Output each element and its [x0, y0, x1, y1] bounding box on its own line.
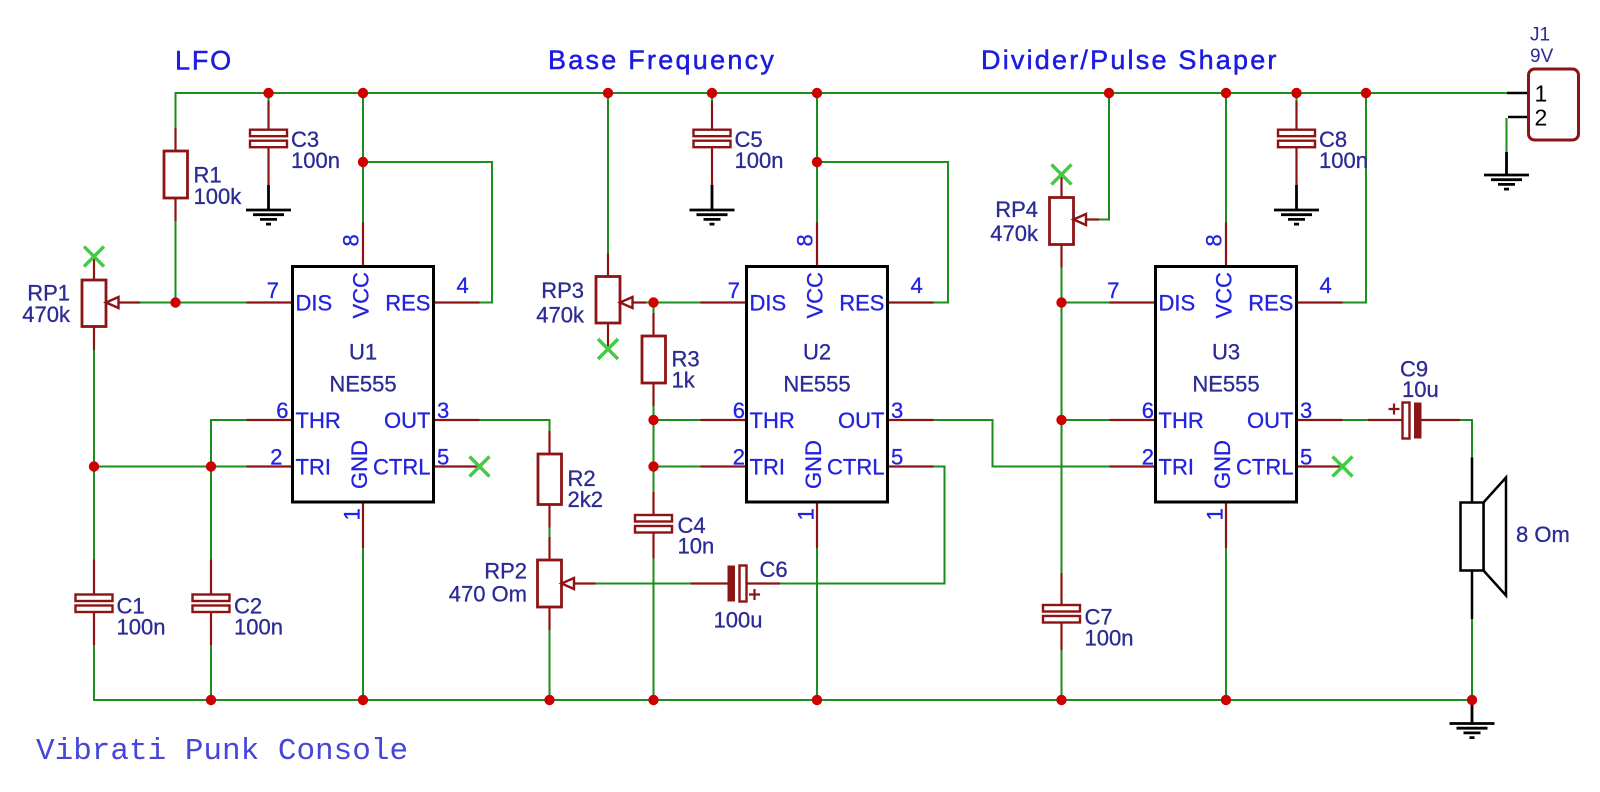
wire J1 pin2 to ground [1506, 118, 1508, 152]
svg-text:100n: 100n [234, 615, 283, 640]
svg-text:1k: 1k [672, 368, 696, 393]
wire C9 to speaker [1460, 420, 1472, 458]
svg-text:4: 4 [457, 273, 469, 298]
svg-text:2: 2 [733, 445, 745, 470]
resistor R2 [538, 431, 562, 528]
resistor R1 [164, 128, 188, 221]
svg-text:CTRL: CTRL [1236, 455, 1293, 480]
svg-text:OUT: OUT [1247, 408, 1293, 433]
svg-text:Vibrati Punk Console: Vibrati Punk Console [36, 734, 408, 769]
potentiometer RP3 [596, 254, 646, 347]
svg-text:1: 1 [1203, 508, 1228, 520]
wire U3 THR [1062, 419, 1110, 421]
U1 pin names [296, 272, 431, 489]
capacitor C9 polarized [1368, 403, 1460, 439]
svg-text:DIS: DIS [1159, 291, 1196, 316]
svg-text:RP2: RP2 [484, 559, 527, 584]
svg-text:470 Om: 470 Om [449, 582, 527, 607]
U3 pin 6 stub [1110, 419, 1156, 421]
no-connect X on RP1 top [84, 247, 104, 267]
ground below C8 [1274, 185, 1319, 224]
connector J1 [1507, 69, 1579, 140]
capacitor C1 [76, 560, 113, 646]
ground at bottom right [1450, 700, 1495, 738]
U1 pin 4 stub [434, 301, 480, 303]
svg-text:NE555: NE555 [1192, 372, 1259, 397]
svg-text:3: 3 [891, 398, 903, 423]
wire RP2 wiper to C6 [594, 583, 691, 585]
U3 pin 2 stub [1110, 465, 1156, 467]
svg-text:U2: U2 [803, 340, 831, 365]
svg-text:LFO: LFO [175, 46, 233, 76]
no-connect X on RP4 top [1052, 165, 1072, 185]
U2 pin 1 stub [816, 502, 818, 548]
svg-text:4: 4 [911, 273, 923, 298]
op-amp U3 body NE555 [1156, 267, 1297, 503]
wire C4 bottom to GND rail [653, 559, 655, 701]
wire U1 TRI [94, 467, 247, 560]
potentiometer RP2 [538, 537, 596, 630]
no-connect X on RP3 bottom [598, 339, 618, 359]
U2 pin numbers [728, 234, 923, 520]
U1 pin 6 stub [247, 419, 293, 421]
svg-text:5: 5 [891, 445, 903, 470]
svg-text:VCC: VCC [803, 272, 828, 319]
svg-text:RES: RES [839, 291, 884, 316]
potentiometer RP1 [82, 258, 140, 350]
wire U2 pin8 VCC drop [816, 93, 818, 223]
wire RP1 wiper to DIS node [138, 302, 176, 304]
junction dots VCC-RES branches [358, 157, 822, 167]
svg-text:THR: THR [296, 408, 341, 433]
svg-text:U3: U3 [1212, 340, 1240, 365]
wire C5 drop from rail [711, 93, 713, 101]
U3 pin 4 stub [1297, 301, 1343, 303]
svg-text:470k: 470k [22, 302, 71, 327]
svg-text:CTRL: CTRL [373, 455, 430, 480]
ground below J1 [1484, 152, 1529, 189]
svg-text:Base Frequency: Base Frequency [548, 45, 776, 75]
U3 pin numbers [1107, 234, 1332, 520]
svg-text:100n: 100n [1085, 626, 1134, 651]
svg-text:RES: RES [385, 291, 430, 316]
U3 pin 8 stub [1225, 223, 1227, 267]
svg-text:THR: THR [750, 408, 795, 433]
svg-text:THR: THR [1159, 408, 1204, 433]
svg-text:DIS: DIS [750, 291, 787, 316]
svg-text:8: 8 [793, 234, 818, 246]
U2 pin 2 stub [701, 465, 747, 467]
U2 pin 5 stub [888, 465, 934, 467]
svg-text:2: 2 [270, 445, 282, 470]
wire U3 pin8 VCC drop [1225, 93, 1227, 223]
capacitor C3 [250, 101, 287, 185]
svg-text:U1: U1 [349, 340, 377, 365]
svg-text:RP4: RP4 [995, 197, 1038, 222]
wire R1 bottom to DIS node [175, 221, 177, 303]
wire U1 DIS [176, 302, 247, 304]
svg-text:100n: 100n [291, 148, 340, 173]
svg-text:8: 8 [339, 234, 364, 246]
svg-text:8: 8 [1202, 234, 1227, 246]
svg-text:5: 5 [1300, 445, 1312, 470]
capacitor C7 [1043, 573, 1080, 650]
capacitor C8 [1278, 101, 1315, 185]
wire R3 top [653, 303, 655, 314]
svg-text:VCC: VCC [349, 272, 374, 319]
svg-text:OUT: OUT [838, 408, 884, 433]
capacitor C2 [193, 560, 230, 646]
svg-text:5: 5 [437, 445, 449, 470]
wire C2 bottom to GND rail [210, 645, 212, 700]
junction dots top rail [263, 88, 1371, 98]
resistor R3 [642, 313, 666, 406]
svg-text:2: 2 [1535, 105, 1548, 131]
svg-text:1: 1 [794, 508, 819, 520]
svg-text:DIS: DIS [296, 291, 333, 316]
wire U2 TRI [654, 466, 701, 468]
U2 pin names [750, 272, 885, 489]
wire C3 drop from rail [268, 93, 270, 101]
wire U3 RES riser from rail [1343, 93, 1367, 303]
wire R2 to RP2 [549, 528, 551, 538]
svg-text:CTRL: CTRL [827, 455, 884, 480]
svg-text:RES: RES [1248, 291, 1293, 316]
op-amp U1 body NE555 [293, 267, 434, 503]
wire C1 top [93, 467, 95, 560]
wire U1 pin1 GND drop [362, 548, 364, 700]
junction dots DIS rows [170, 297, 1066, 307]
wire U1 RES to VCC branch [363, 162, 492, 303]
wire GND bottom rail [94, 645, 1472, 700]
wire U1 OUT to R2 [480, 420, 550, 431]
no-connect X on U3 CTRL [1333, 457, 1353, 477]
svg-text:1: 1 [340, 508, 365, 520]
svg-text:470k: 470k [536, 303, 585, 328]
svg-text:TRI: TRI [750, 455, 785, 480]
wire C6 to U2 CTRL [775, 467, 945, 584]
svg-text:TRI: TRI [1159, 455, 1194, 480]
svg-text:100n: 100n [117, 615, 166, 640]
wire U3 DIS [1062, 302, 1110, 304]
svg-text:6: 6 [733, 398, 745, 423]
svg-text:TRI: TRI [296, 455, 331, 480]
wire RP3 top drop from rail [607, 93, 609, 254]
U1 pin 1 stub [362, 502, 364, 548]
svg-text:100n: 100n [735, 148, 784, 173]
capacitor C4 [635, 492, 672, 559]
ground below C5 [690, 185, 735, 224]
svg-text:NE555: NE555 [329, 372, 396, 397]
svg-text:RP3: RP3 [541, 278, 584, 303]
svg-text:10u: 10u [1402, 377, 1439, 402]
U1 pin 7 stub [247, 301, 293, 303]
wire VCC top rail [176, 93, 1508, 128]
capacitor C6 polarized [691, 566, 781, 602]
U2 pin 6 stub [701, 419, 747, 421]
potentiometer RP4 [1050, 175, 1100, 268]
wire U1 THR [211, 420, 247, 572]
svg-text:9V: 9V [1530, 46, 1554, 67]
wire RP4 bottom to U3 DIS node [1061, 268, 1063, 303]
junction dots THR rows [648, 415, 1066, 425]
speaker LS1 [1461, 458, 1507, 620]
junction dots bottom rail [206, 695, 1477, 705]
U1 pin 5 stub [434, 465, 480, 467]
svg-text:3: 3 [1300, 398, 1312, 423]
U2 pin 3 stub [888, 419, 934, 421]
svg-text:C6: C6 [760, 557, 788, 582]
op-amp U2 body NE555 [747, 267, 888, 503]
U3 pin 3 stub [1297, 419, 1343, 421]
svg-text:100n: 100n [1319, 148, 1368, 173]
wire RP2 bottom to GND rail [549, 630, 551, 700]
svg-text:100u: 100u [714, 608, 763, 633]
wire RP4 wiper riser from rail [1098, 93, 1109, 220]
svg-text:100k: 100k [194, 184, 243, 209]
U3 pin names [1159, 272, 1294, 489]
svg-text:7: 7 [267, 278, 279, 303]
wire U2 RES to VCC branch [817, 162, 948, 303]
svg-text:10n: 10n [678, 534, 715, 559]
wire RP1 bottom to TRI node [93, 350, 95, 467]
svg-text:VCC: VCC [1212, 272, 1237, 319]
svg-text:6: 6 [1142, 398, 1154, 423]
U1 pin 2 stub [247, 465, 293, 467]
capacitor C5 [694, 101, 731, 185]
U2 pin 7 stub [701, 301, 747, 303]
svg-text:J1: J1 [1530, 25, 1550, 46]
svg-text:470k: 470k [990, 221, 1039, 246]
U2 pin 4 stub [888, 301, 934, 303]
svg-text:GND: GND [347, 440, 372, 489]
wire U3 pin1 GND drop [1225, 548, 1227, 700]
wire R3 bottom through THR TRI to C4 [653, 406, 655, 492]
wire U1 pin8 VCC drop [362, 93, 364, 223]
wire U2 OUT to U3 TRI [934, 420, 1110, 467]
wire U3 DIS node down to C7 [1061, 303, 1063, 574]
svg-text:2k2: 2k2 [568, 487, 603, 512]
svg-text:1: 1 [1535, 81, 1548, 107]
svg-text:GND: GND [1210, 440, 1235, 489]
U1 pin numbers [267, 234, 469, 520]
wire U2 pin1 GND drop [816, 548, 818, 700]
wire RP3 wiper to U2 DIS [645, 302, 701, 304]
svg-text:8 Om: 8 Om [1516, 522, 1570, 547]
svg-text:NE555: NE555 [783, 372, 850, 397]
U1 pin 3 stub [434, 419, 480, 421]
wire speaker bottom to GND rail [1471, 619, 1473, 700]
svg-text:OUT: OUT [384, 408, 430, 433]
svg-text:GND: GND [801, 440, 826, 489]
U3 pin 1 stub [1225, 502, 1227, 548]
U2 pin 8 stub [816, 223, 818, 267]
U3 pin 7 stub [1110, 301, 1156, 303]
U1 pin 8 stub [362, 223, 364, 267]
wire C8 drop from rail [1296, 93, 1298, 101]
wire U2 THR [654, 419, 701, 421]
svg-text:7: 7 [728, 278, 740, 303]
U3 pin 5 stub [1297, 465, 1343, 467]
wire C7 bottom to GND rail [1061, 650, 1063, 700]
junction dots TRI rows [89, 461, 659, 471]
no-connect X on U1 CTRL [470, 457, 490, 477]
svg-text:2: 2 [1142, 445, 1154, 470]
wire U3 OUT to C9 [1343, 419, 1369, 421]
svg-text:7: 7 [1107, 278, 1119, 303]
svg-text:3: 3 [437, 398, 449, 423]
svg-text:6: 6 [276, 398, 288, 423]
ground below C3 [246, 185, 291, 224]
svg-text:Divider/Pulse Shaper: Divider/Pulse Shaper [981, 45, 1279, 75]
svg-text:4: 4 [1320, 273, 1332, 298]
